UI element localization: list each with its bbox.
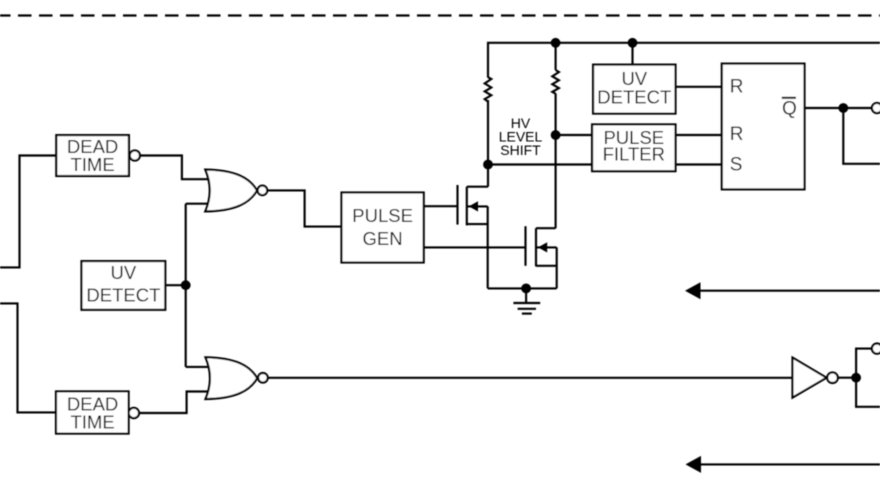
M1 channel bar bbox=[466, 187, 468, 226]
wire U2 output to latch R input 1 bbox=[676, 86, 722, 88]
gate G1 upper NOR bbox=[205, 170, 257, 212]
wire input LIN from left edge bbox=[0, 303, 56, 412]
svg-text:R: R bbox=[730, 124, 744, 145]
wire input HIN from left edge bbox=[0, 156, 56, 268]
svg-text:FILTER: FILTER bbox=[603, 143, 665, 164]
svg-text:UV: UV bbox=[111, 262, 137, 283]
box RS latch U3 bbox=[722, 64, 805, 190]
svg-text:DETECT: DETECT bbox=[597, 86, 671, 107]
wire node E down and out right edge bbox=[856, 378, 880, 407]
box DEAD TIME upper DT1 bbox=[56, 135, 129, 176]
bubble DT1 output bbox=[130, 150, 140, 160]
M2 gate bar bbox=[524, 226, 526, 266]
svg-text:TIME: TIME bbox=[70, 154, 114, 175]
box PULSE FILTER bbox=[592, 124, 675, 171]
wire node A to PULSE FILTER input 2 bbox=[488, 163, 592, 165]
wire node E up to terminal bubble bbox=[856, 349, 872, 378]
svg-text:SHIFT: SHIFT bbox=[500, 142, 541, 158]
wire UV vertical bus to NOR G1 input 2 and NOR G2 input 1 bbox=[186, 204, 208, 367]
M2 body stub bbox=[536, 246, 557, 248]
bubble G3 output bbox=[827, 372, 838, 383]
M1 source stub bbox=[467, 223, 488, 225]
resistor R1 bbox=[485, 77, 492, 102]
wire G1 output to PULSE GEN input bbox=[267, 190, 341, 226]
gate G3 inverter buffer bbox=[793, 358, 827, 398]
svg-text:GEN: GEN bbox=[363, 228, 403, 249]
wire U1 output to node C bbox=[165, 284, 185, 286]
wire PULSE FILTER output 1 to latch R input 2 bbox=[676, 134, 722, 136]
M2 source stub bbox=[536, 265, 557, 267]
ground symbol bbox=[513, 288, 540, 313]
wire PULSE GEN output 2 to M2 gate bbox=[424, 246, 526, 248]
M1 drain stub bbox=[467, 186, 488, 188]
wire node D down and out right edge bbox=[843, 108, 880, 164]
M2 channel bar bbox=[535, 228, 537, 266]
node C junction dot bbox=[181, 280, 191, 290]
svg-text:R: R bbox=[730, 77, 744, 98]
node VB dot at R2 top bbox=[551, 38, 561, 48]
box UV DETECT left U1 bbox=[82, 261, 166, 310]
node D junction dot on Q output bbox=[838, 103, 848, 113]
M2 body arrow bbox=[538, 242, 547, 252]
node A junction dot bbox=[483, 160, 493, 170]
wire R2 bottom to node B and M2 drain bbox=[555, 94, 557, 229]
svg-text:DETECT: DETECT bbox=[86, 285, 160, 306]
wire DT1 output to NOR G1 input 1 bbox=[140, 156, 208, 180]
bubble G2 output bbox=[258, 373, 268, 383]
M2 source vertical to ground rail bbox=[556, 247, 558, 288]
IC boundary dashed line bbox=[0, 14, 880, 16]
wire ground rail bbox=[488, 287, 557, 289]
box PULSE GEN bbox=[342, 193, 424, 263]
terminal bubble LO lower right bbox=[872, 344, 880, 354]
M1 body stub bbox=[467, 205, 488, 207]
svg-text:S: S bbox=[730, 155, 743, 176]
M1 body arrow bbox=[469, 201, 478, 211]
wire VB rail to UV DETECT (right) top bbox=[631, 43, 633, 65]
wire R1 bottom to node A bbox=[487, 100, 489, 187]
arrow VS return upper bbox=[685, 282, 880, 299]
M1 gate bar bbox=[456, 185, 458, 225]
wire PULSE GEN output 1 to M1 gate bbox=[424, 205, 458, 207]
wire PULSE FILTER output 2 to latch S input bbox=[676, 163, 722, 165]
transistor M1 level-shift MOSFET bbox=[458, 185, 489, 288]
bubble DT2 output bbox=[129, 408, 139, 418]
node VB dot at UV DETECT branch bbox=[628, 38, 638, 48]
wire G3 output to node E bbox=[838, 377, 856, 379]
svg-text:Q: Q bbox=[782, 99, 797, 120]
svg-text:PULSE: PULSE bbox=[352, 205, 413, 226]
wire G2 output to inverter input bbox=[268, 377, 793, 379]
wire latch Q output bbox=[805, 107, 872, 109]
node B junction dot bbox=[551, 130, 561, 140]
label Q overbar bbox=[782, 97, 796, 99]
M2 drain stub bbox=[536, 227, 556, 229]
wire DT2 output to NOR G2 input 2 bbox=[139, 392, 208, 414]
wire node B to PULSE FILTER input 1 bbox=[556, 134, 593, 136]
svg-text:TIME: TIME bbox=[70, 412, 114, 433]
wire VB top rail bbox=[488, 43, 880, 78]
bubble G1 output bbox=[258, 186, 268, 196]
box UV DETECT right U2 bbox=[593, 65, 675, 114]
gate G2 lower NOR bbox=[206, 357, 258, 399]
node ground junction dot bbox=[521, 284, 531, 294]
transistor M2 level-shift MOSFET bbox=[526, 226, 557, 288]
terminal bubble HO top right bbox=[872, 103, 880, 113]
box DEAD TIME lower DT2 bbox=[56, 391, 129, 433]
node E junction dot bbox=[851, 373, 861, 383]
M1 source vertical to ground rail bbox=[487, 206, 489, 288]
arrow COM return lower bbox=[686, 456, 880, 473]
resistor R2 bbox=[552, 43, 559, 94]
